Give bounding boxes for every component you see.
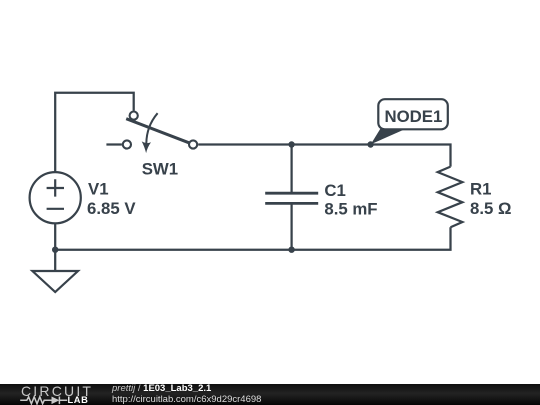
footer bar	[0, 384, 540, 405]
voltage source V1	[30, 172, 81, 223]
capacitor C1 plates	[265, 193, 318, 203]
svg-text:V1: V1	[88, 180, 109, 199]
wire capacitor bottom lead	[290, 204, 292, 250]
wire V1 bottom to ground stem	[54, 223, 56, 271]
label C1 value	[324, 181, 377, 218]
wire resistor bottom to bottom rail	[55, 227, 450, 250]
node junction dot at ground rail	[52, 247, 58, 253]
CircuitLab logo circuit glyph	[0, 394, 100, 405]
svg-text:SW1: SW1	[142, 159, 178, 178]
svg-text:R1: R1	[470, 179, 491, 198]
label SW1	[142, 159, 178, 178]
node junction dot NODE1	[367, 141, 373, 147]
node junction dot at capacitor bottom	[288, 247, 294, 253]
node junction dot at capacitor top	[288, 141, 294, 147]
svg-text:8.5 mF: 8.5 mF	[324, 199, 377, 218]
label V1 value	[87, 180, 136, 218]
wire from switch right terminal along top to right corner	[198, 145, 450, 167]
wire capacitor top lead	[290, 145, 292, 193]
footer url text	[112, 395, 261, 404]
wire from V1 top up and over to switch pivot	[55, 93, 134, 172]
logo LAB text	[68, 395, 89, 405]
svg-text:8.5 Ω: 8.5 Ω	[470, 199, 511, 218]
footer title text	[112, 384, 211, 393]
resistor R1 zigzag	[438, 167, 463, 228]
CircuitLab logo wordmark	[21, 386, 93, 397]
svg-text:6.85 V: 6.85 V	[87, 199, 136, 218]
switch SW1	[123, 112, 197, 154]
ground	[32, 271, 78, 292]
node NODE1 callout	[371, 99, 448, 144]
label R1 value	[470, 179, 511, 218]
wire open stub left of switch throw	[106, 143, 122, 145]
svg-text:NODE1: NODE1	[385, 107, 443, 126]
svg-text:C1: C1	[324, 181, 345, 200]
